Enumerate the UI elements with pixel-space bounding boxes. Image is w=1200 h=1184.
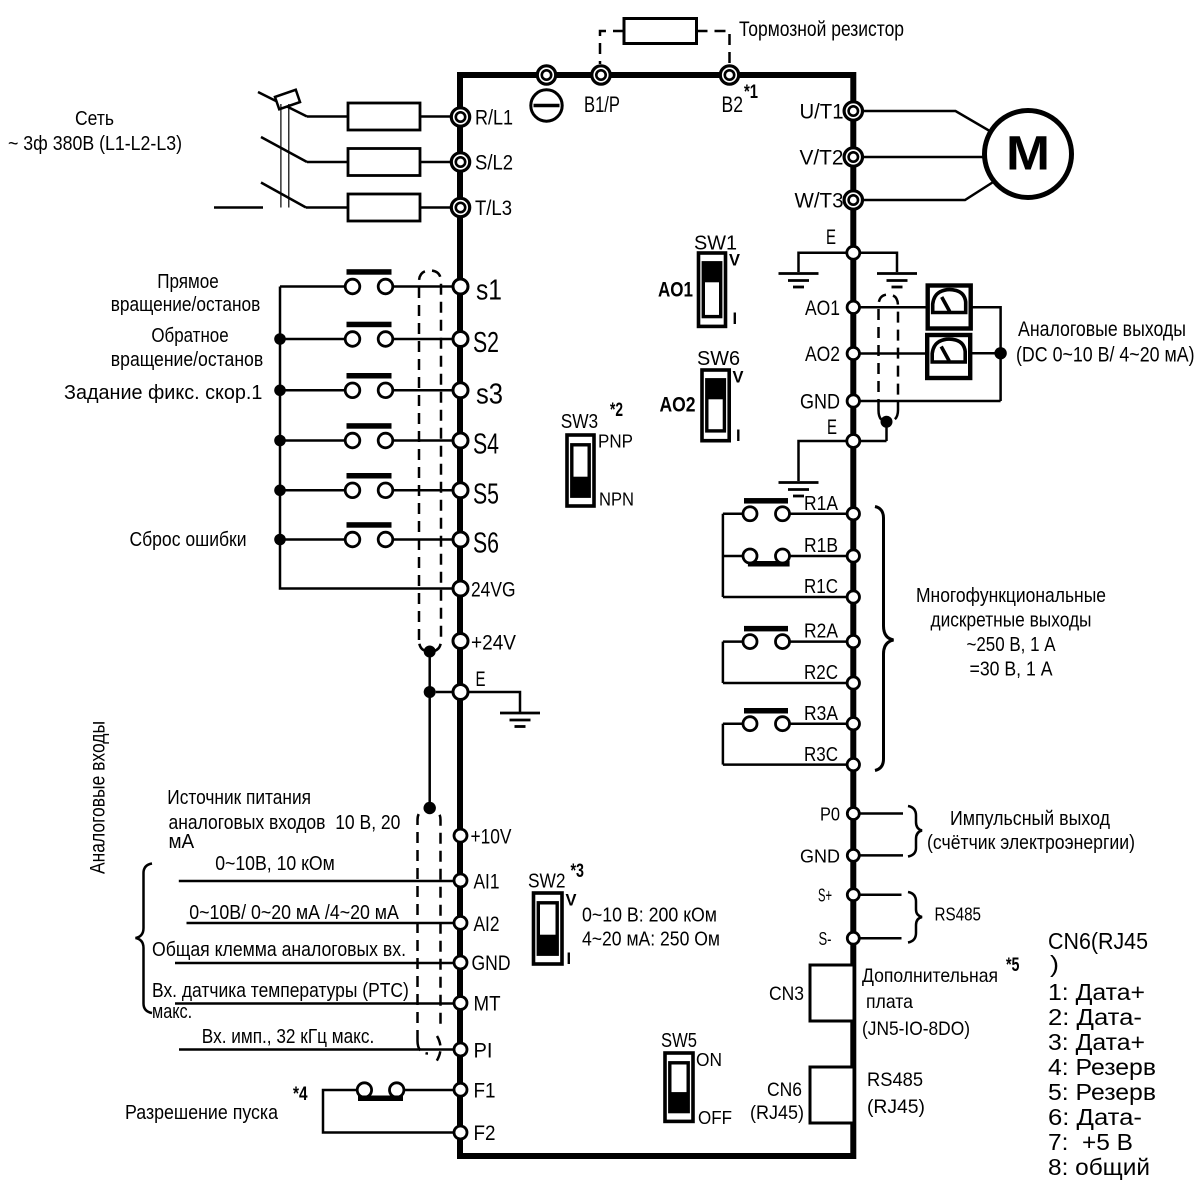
svg-text:S4: S4: [473, 429, 499, 461]
svg-text:Импульсный выход: Импульсный выход: [950, 807, 1110, 830]
svg-text:Вх. датчика температуры (PTC): Вх. датчика температуры (PTC): [152, 980, 409, 1002]
svg-text:PI: PI: [474, 1039, 493, 1063]
svg-text:R2C: R2C: [804, 661, 838, 684]
junction dot meters: [994, 347, 1006, 359]
node E junction dot: [424, 686, 436, 698]
svg-text:U/T1: U/T1: [800, 100, 844, 124]
wire R3C: [723, 763, 847, 766]
wire V/T2 to motor: [861, 156, 985, 159]
svg-text:SW6: SW6: [697, 348, 740, 370]
DIP switch SW6: [702, 370, 729, 441]
terminal GND (right): [847, 395, 859, 407]
terminal R3A: [847, 718, 859, 730]
AO shield drain dot: [881, 416, 893, 428]
svg-text:6: Дата-: 6: Дата-: [1048, 1104, 1142, 1130]
svg-text:R3C: R3C: [804, 743, 838, 766]
svg-text:R/L1: R/L1: [475, 106, 513, 130]
svg-text:Аналоговые выходы: Аналоговые выходы: [1018, 318, 1186, 341]
DIP switch SW3: [567, 435, 594, 506]
svg-text:): ): [1050, 951, 1059, 977]
svg-text:(RJ45): (RJ45): [867, 1096, 925, 1118]
svg-text:(счётчик электроэнергии): (счётчик электроэнергии): [927, 831, 1135, 854]
relay contact R3A (NO): [744, 708, 788, 714]
wire bus to S1 contact: [280, 285, 345, 288]
svg-text:24VG: 24VG: [471, 578, 516, 602]
svg-text:E: E: [826, 225, 836, 249]
connector CN3: [810, 965, 854, 1021]
svg-text:R1A: R1A: [804, 492, 838, 515]
svg-text:MT: MT: [474, 992, 501, 1016]
wire bus to R1B contact: [723, 555, 743, 558]
terminal MT: [454, 997, 467, 1010]
wire shield drain to E node: [428, 652, 431, 693]
wire AO2 to meter2: [860, 352, 927, 355]
VFD main enclosure box: [460, 75, 853, 1156]
svg-text:(DC 0~10 В/ 4~20 мА): (DC 0~10 В/ 4~20 мА): [1016, 344, 1195, 367]
wire MT: [175, 1002, 454, 1005]
wire U/T1 to motor: [861, 111, 994, 134]
wire R2C: [723, 682, 847, 685]
svg-text:F2: F2: [474, 1121, 496, 1145]
svg-text:GND: GND: [800, 390, 840, 414]
svg-text:мА: мА: [169, 831, 195, 853]
svg-text:S2: S2: [473, 327, 499, 359]
junction dot S6: [274, 534, 286, 546]
breaker pole 3 lead: [214, 206, 263, 209]
svg-text:*5: *5: [1006, 955, 1020, 976]
svg-text:Источник питания: Источник питания: [167, 787, 311, 809]
terminal S2: [453, 332, 468, 347]
svg-text:S/L2: S/L2: [475, 151, 513, 175]
svg-text:AI2: AI2: [474, 912, 500, 936]
svg-text:Разрешение пуска: Разрешение пуска: [125, 1102, 279, 1124]
contact switch S2: [347, 322, 392, 328]
svg-text:+24V: +24V: [471, 631, 517, 655]
motor M: [985, 111, 1072, 198]
minus symbol: [531, 90, 562, 121]
svg-text:4: Резерв: 4: Резерв: [1048, 1054, 1156, 1080]
svg-text:PNP: PNP: [598, 431, 633, 452]
wire fuse3 to T/L3: [420, 206, 452, 209]
svg-text:*3: *3: [571, 861, 585, 882]
wire F-switch to F1: [404, 1089, 454, 1092]
svg-text:(JN5-IO-8DO): (JN5-IO-8DO): [862, 1018, 970, 1040]
wire GND pulse: [860, 854, 903, 857]
wire fuse2 to S/L2: [420, 161, 452, 164]
wire meter1 to join: [971, 307, 1001, 401]
wire contact to S2: [393, 338, 453, 341]
svg-text:AO2: AO2: [805, 342, 840, 366]
wire E2 to ground: [799, 441, 847, 481]
svg-text:P0: P0: [820, 804, 840, 825]
terminal B1/P: [592, 66, 610, 84]
terminal S5: [453, 483, 468, 498]
terminal S4: [453, 433, 468, 448]
svg-text:I: I: [567, 950, 572, 968]
svg-text:8: общий: 8: общий: [1048, 1154, 1150, 1180]
wire bus to S5 contact: [280, 489, 345, 492]
ground (left E): [500, 712, 540, 715]
terminal S+: [847, 889, 859, 901]
svg-text:S6: S6: [473, 528, 499, 560]
terminal W/T3: [844, 191, 862, 209]
brake resistor (dashed external): [624, 19, 697, 44]
svg-text:AO1: AO1: [805, 296, 840, 320]
contact switch S6: [347, 522, 392, 528]
wire meter2 to join: [970, 352, 1000, 355]
terminal R2A: [847, 635, 859, 647]
DIP switch SW1: [699, 253, 726, 326]
svg-text:CN3: CN3: [769, 983, 804, 1005]
svg-text:дискретные выходы: дискретные выходы: [931, 609, 1092, 632]
svg-text:I: I: [733, 310, 738, 328]
svg-text:*2: *2: [610, 400, 623, 421]
svg-text:s1: s1: [476, 275, 502, 307]
svg-text:~ 3ф 380В (L1-L2-L3): ~ 3ф 380В (L1-L2-L3): [8, 132, 182, 155]
terminal AO1: [847, 301, 859, 313]
contact switch S4: [347, 423, 392, 429]
svg-text:V/T2: V/T2: [800, 146, 844, 170]
fuse F2 (S phase): [348, 149, 420, 176]
terminal S3: [453, 383, 468, 398]
contact switch S3: [347, 373, 392, 379]
brace pulse output: [908, 806, 922, 857]
svg-text:~250 В, 1 А: ~250 В, 1 А: [967, 633, 1056, 656]
shield of analog inputs (dashed): [418, 809, 441, 1041]
breaker pole 2 blade: [261, 137, 307, 162]
wire contact to S5: [393, 489, 453, 492]
svg-text:Дополнительная: Дополнительная: [862, 965, 998, 987]
wire AI2: [187, 922, 455, 925]
svg-text:V: V: [733, 369, 744, 387]
wire PI: [179, 1048, 454, 1051]
svg-text:Вх. имп., 32 кГц макс.: Вх. имп., 32 кГц макс.: [202, 1026, 374, 1048]
DIP switch SW2: [534, 893, 563, 964]
svg-text:GND: GND: [472, 951, 511, 975]
svg-text:*1: *1: [744, 82, 758, 103]
wire R1C: [723, 596, 847, 599]
svg-text:7: +5 В: 7: +5 В: [1048, 1129, 1133, 1155]
wire AO1 to meter1: [860, 306, 928, 309]
wire bus to R1A contact: [723, 513, 743, 516]
svg-text:0~10 В: 200 кОм: 0~10 В: 200 кОм: [582, 905, 717, 927]
svg-text:5: Резерв: 5: Резерв: [1048, 1079, 1156, 1105]
svg-text:аналоговых входов 10 В, 20: аналоговых входов 10 В, 20: [169, 812, 401, 834]
terminal U/T1: [844, 102, 862, 120]
svg-text:Прямое: Прямое: [157, 271, 219, 293]
junction dot S4: [274, 435, 286, 447]
svg-text:Задание фикс. скор.1: Задание фикс. скор.1: [64, 382, 262, 404]
wire R1A: [790, 513, 847, 516]
terminal R1B: [847, 550, 859, 562]
svg-text:Общая клемма аналоговых вх.: Общая клемма аналоговых вх.: [152, 939, 406, 961]
wire AI1: [179, 880, 454, 883]
wire R3A: [790, 722, 847, 725]
wire bus to S6 contact: [280, 538, 345, 541]
svg-text:V: V: [566, 892, 577, 910]
wire E node to terminal: [436, 691, 453, 694]
terminal PI: [454, 1043, 467, 1056]
svg-text:R2A: R2A: [804, 620, 838, 643]
vertical label analog inputs: [87, 721, 110, 874]
wire bus to S3 contact: [280, 389, 345, 392]
svg-text:AO1: AO1: [658, 279, 693, 302]
svg-text:4~20 мА: 250 Ом: 4~20 мА: 250 Ом: [582, 929, 720, 951]
wire E to outer ground: [860, 253, 897, 272]
svg-text:ON: ON: [696, 1050, 722, 1070]
wire pole3 to fuse3: [306, 206, 348, 209]
wire contact to S3: [393, 389, 453, 392]
contact switch F1-F2 (closed): [357, 1083, 371, 1097]
terminal 24VG: [453, 581, 468, 596]
ground (E second): [779, 481, 819, 484]
svg-text:Сброс ошибки: Сброс ошибки: [129, 529, 246, 551]
relay bus R1: [722, 514, 725, 597]
terminal E (second right): [847, 435, 860, 448]
svg-text:I: I: [736, 427, 741, 445]
connector CN6: [810, 1067, 854, 1123]
svg-text:2: Дата-: 2: Дата-: [1048, 1004, 1142, 1030]
svg-text:W/T3: W/T3: [795, 189, 844, 213]
wire P0: [860, 812, 903, 815]
terminal minus (DC bus): [537, 66, 555, 84]
wire pole1 to fuse1: [307, 115, 348, 118]
analog shield top dot: [424, 802, 436, 814]
terminal F2: [454, 1126, 467, 1139]
shield drain continues: [428, 692, 431, 808]
meter AO2: [927, 335, 970, 378]
svg-text:B2: B2: [722, 92, 744, 117]
terminal AI1: [454, 874, 467, 887]
terminal B2: [720, 66, 738, 84]
junction dot S5: [274, 485, 286, 497]
wire E to ground: [469, 692, 521, 712]
relay contact R1A (NO): [744, 498, 788, 504]
svg-text:s3: s3: [476, 378, 503, 410]
meter AO1: [928, 286, 971, 329]
wire AO shield drain: [885, 422, 888, 441]
fuse F3 (T phase): [348, 194, 420, 221]
svg-text:Обратное: Обратное: [151, 325, 228, 347]
svg-text:0~10В, 10 кОм: 0~10В, 10 кОм: [215, 853, 335, 875]
AO shield (dashed): [879, 295, 899, 411]
brace analog inputs: [136, 864, 153, 1014]
svg-text:CN6: CN6: [767, 1079, 802, 1101]
svg-text:AI1: AI1: [474, 870, 500, 894]
terminal F1: [454, 1083, 467, 1096]
terminal T/L3: [451, 198, 469, 216]
svg-text:B1/P: B1/P: [584, 92, 620, 117]
svg-text:=30 В, 1 А: =30 В, 1 А: [970, 658, 1053, 681]
junction dot S2: [274, 333, 286, 345]
terminal GND (left): [454, 956, 467, 969]
wire R2A: [790, 640, 847, 643]
terminal E (upper right): [847, 246, 860, 259]
svg-text:V: V: [729, 252, 740, 270]
svg-text:S+: S+: [818, 885, 832, 906]
svg-text:T/L3: T/L3: [475, 196, 512, 220]
relay contact R2A (NO): [744, 626, 788, 632]
terminal S1: [453, 279, 468, 294]
svg-text:R1B: R1B: [804, 534, 838, 557]
terminal AI2: [454, 916, 467, 929]
relay bus R2: [722, 642, 725, 683]
junction dot S3: [274, 385, 286, 397]
svg-text:SW3: SW3: [561, 411, 599, 433]
ground (inner, E upper): [779, 272, 819, 275]
svg-text:Аналоговые входы: Аналоговые входы: [87, 721, 110, 874]
svg-text:0~10В/ 0~20 мА /4~20 мА: 0~10В/ 0~20 мА /4~20 мА: [189, 902, 399, 924]
wire pole2 to fuse2: [307, 161, 348, 164]
wire contact to S1: [393, 285, 453, 288]
terminal R2C: [847, 677, 859, 689]
DIP switch SW5: [665, 1053, 693, 1121]
svg-text:S5: S5: [473, 478, 499, 510]
wire S+: [860, 893, 902, 896]
svg-text:вращение/останов: вращение/останов: [111, 294, 261, 316]
terminal R/L1: [451, 108, 469, 126]
terminal S-: [847, 932, 859, 944]
svg-text:+10V: +10V: [471, 825, 513, 849]
svg-text:3: Дата+: 3: Дата+: [1048, 1029, 1145, 1055]
shield drain dot: [424, 646, 436, 658]
terminal S/L2: [451, 153, 469, 171]
terminal GND (pulse): [847, 849, 859, 861]
breaker tie link: [280, 104, 282, 208]
svg-text:F1: F1: [474, 1079, 496, 1103]
terminal +10V: [454, 829, 467, 842]
wire E2 to shield drain: [860, 440, 887, 443]
contact switch S1: [347, 269, 392, 275]
terminal R3C: [847, 758, 859, 770]
svg-text:GND: GND: [800, 845, 840, 866]
svg-text:CN6(RJ45: CN6(RJ45: [1048, 928, 1148, 954]
terminal R1A: [847, 508, 859, 520]
ground (outer, E upper): [877, 272, 917, 275]
shield of digital inputs (dashed): [419, 271, 441, 652]
svg-text:Многофункциональные: Многофункциональные: [916, 584, 1106, 607]
svg-text:E: E: [827, 415, 837, 439]
terminal V/T2: [844, 148, 862, 166]
terminal AO2: [847, 347, 859, 359]
svg-text:вращение/останов: вращение/останов: [111, 349, 263, 371]
wire GND analog: [175, 962, 454, 965]
svg-text:(RJ45): (RJ45): [750, 1102, 804, 1124]
svg-text:SW2: SW2: [528, 871, 566, 893]
svg-text:NPN: NPN: [599, 489, 634, 510]
terminal +24V: [453, 634, 468, 649]
svg-text:плата: плата: [866, 991, 913, 1013]
svg-text:R3A: R3A: [804, 702, 838, 725]
svg-text:1: Дата+: 1: Дата+: [1048, 979, 1145, 1005]
wire E to inner ground: [799, 253, 847, 272]
wire bus to R2A contact: [723, 640, 743, 643]
svg-text:R1C: R1C: [804, 575, 838, 598]
wire GND to join: [860, 400, 1001, 403]
wire W/T3 to motor: [861, 182, 994, 201]
svg-text:RS485: RS485: [867, 1069, 923, 1091]
digital input common bus: [280, 287, 453, 589]
svg-text:RS485: RS485: [935, 904, 982, 925]
wire bus to S2 contact: [280, 338, 345, 341]
terminal P0: [847, 808, 859, 820]
svg-text:S-: S-: [819, 928, 832, 949]
breaker pole 3 blade: [261, 183, 306, 208]
fuse F1 (R phase): [348, 103, 420, 130]
contact switch S5: [347, 473, 392, 479]
svg-text:M: M: [1006, 128, 1050, 181]
wire R1B: [790, 555, 847, 558]
svg-text:SW5: SW5: [661, 1030, 697, 1052]
svg-text:AO2: AO2: [660, 394, 696, 417]
wire contact to S6: [393, 538, 453, 541]
wire S-: [860, 937, 902, 940]
wire fuse1 to R/L1: [420, 115, 452, 118]
terminal E (left): [453, 685, 468, 700]
svg-text:OFF: OFF: [698, 1108, 732, 1128]
svg-text:Тормозной резистор: Тормозной резистор: [739, 17, 904, 41]
wire bus to S4 contact: [280, 439, 345, 442]
relay bus R3: [722, 724, 725, 765]
breaker pole 1 blade: [258, 92, 307, 117]
terminal R1C: [847, 591, 859, 603]
wire bus to R3A contact: [723, 722, 743, 725]
svg-text:E: E: [476, 667, 486, 691]
relay contact R1B (NC): [748, 561, 790, 567]
terminal S6: [453, 532, 468, 547]
wire contact to S4: [393, 439, 453, 442]
wire F-switch loop to F2: [323, 1090, 454, 1133]
brace RS485: [908, 892, 922, 943]
brace relay outputs: [875, 507, 894, 771]
svg-text:*4: *4: [293, 1084, 308, 1105]
svg-text:Сеть: Сеть: [75, 107, 114, 130]
